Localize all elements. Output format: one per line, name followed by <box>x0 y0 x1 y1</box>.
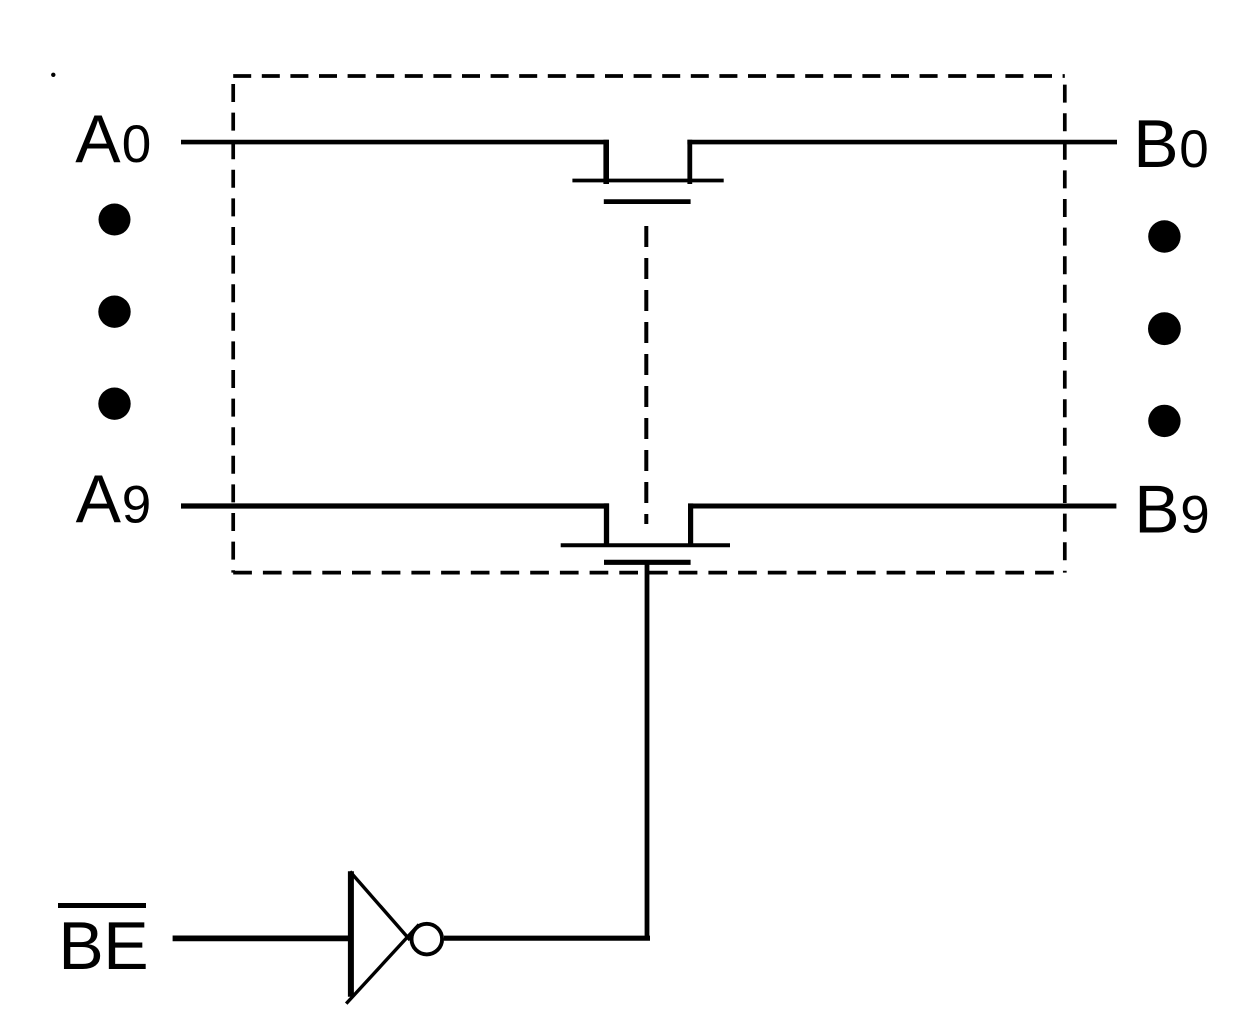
svg-text:E: E <box>103 908 148 984</box>
svg-text:A: A <box>76 461 122 537</box>
svg-text:9: 9 <box>122 476 151 535</box>
svg-text:A: A <box>75 101 121 177</box>
svg-text:B: B <box>58 908 103 984</box>
svg-text:0: 0 <box>1179 120 1208 179</box>
svg-text:B: B <box>1134 471 1179 547</box>
svg-text:9: 9 <box>1180 485 1209 544</box>
svg-text:0: 0 <box>122 115 151 174</box>
svg-text:B: B <box>1133 106 1178 182</box>
